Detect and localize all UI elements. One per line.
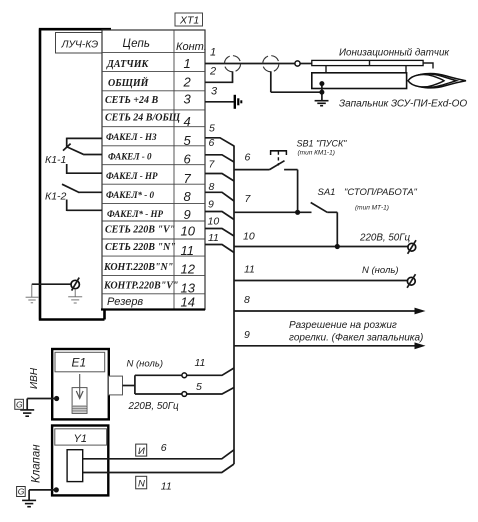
igniter ground connection (315, 81, 329, 106)
device ЛУЧ-КЭ outline (39, 29, 111, 319)
flame (408, 73, 466, 87)
svg-text:4: 4 (184, 114, 191, 129)
svg-text:6: 6 (209, 137, 215, 149)
svg-text:Ионизационный датчик: Ионизационный датчик (339, 47, 449, 58)
relay contact K1-1 (45, 138, 102, 174)
svg-text:горелки. (Факел запальника): горелки. (Факел запальника) (289, 333, 423, 344)
svg-text:SA1: SA1 (318, 187, 336, 198)
svg-text:СЕТЬ 220В "N": СЕТЬ 220В "N" (105, 242, 176, 253)
ionization sensor electrode (312, 60, 433, 72)
svg-text:К1-2: К1-2 (45, 191, 67, 203)
svg-text:Y1: Y1 (74, 433, 87, 445)
arrowhead wire 9 (415, 342, 426, 349)
chassis earth circle symbol (68, 278, 82, 303)
svg-text:6: 6 (184, 152, 192, 167)
igniter transformer E1 box (52, 349, 109, 419)
svg-text:СЕТЬ 220В "V": СЕТЬ 220В "V" (105, 224, 175, 235)
wire 8 exit (234, 310, 418, 312)
svg-text:1: 1 (184, 56, 191, 71)
G box E1 (15, 399, 24, 409)
svg-text:ХТ1: ХТ1 (179, 15, 199, 27)
svg-text:СЕТЬ +24 В: СЕТЬ +24 В (105, 95, 158, 106)
svg-text:2: 2 (183, 75, 192, 90)
relay contact K1-2 (45, 184, 102, 211)
valve coil (67, 450, 83, 482)
svg-text:К1-1: К1-1 (45, 154, 66, 166)
svg-text:13: 13 (181, 280, 196, 295)
svg-text:1: 1 (210, 47, 216, 59)
Y1 ground wire (22, 487, 59, 506)
svg-text:Резерв: Резерв (107, 296, 143, 308)
junction SB1-wire7 (295, 210, 300, 215)
wire 6 to trunk (205, 155, 234, 162)
line end circle wire 10 (408, 240, 416, 254)
svg-text:ФАКЕЛ - 0: ФАКЕЛ - 0 (108, 152, 152, 162)
svg-text:И: И (138, 446, 145, 457)
svg-text:6: 6 (161, 442, 167, 454)
E1 ground wire (20, 396, 59, 416)
svg-text:G: G (16, 400, 23, 410)
svg-text:ФАКЕЛ* - НР: ФАКЕЛ* - НР (107, 209, 163, 219)
connector label XT1 (175, 13, 203, 27)
svg-text:220В, 50Гц: 220В, 50Гц (128, 401, 180, 412)
svg-text:5: 5 (196, 381, 202, 393)
svg-text:N: N (138, 478, 145, 489)
svg-text:Клапан: Клапан (31, 444, 43, 483)
wire 7 exit to SA1 (234, 211, 312, 213)
svg-text:3: 3 (211, 86, 218, 98)
svg-text:ЛУЧ-КЭ: ЛУЧ-КЭ (61, 39, 99, 50)
svg-text:КОНТР.220В"V": КОНТР.220В"V" (103, 281, 178, 292)
svg-text:G: G (18, 487, 25, 497)
Y1 wire N to trunk (83, 464, 234, 473)
junction SA1-wire10 (335, 244, 340, 249)
wire 11 to trunk (205, 245, 234, 253)
wire 9 to trunk (205, 212, 234, 220)
wire 3 (СЕТЬ +24 В) (205, 101, 234, 103)
svg-text:9: 9 (244, 329, 250, 341)
svg-text:ОБЩИЙ: ОБЩИЙ (108, 77, 150, 89)
svg-text:Запальник ЗСУ-ПИ-Еxd-ОО: Запальник ЗСУ-ПИ-Еxd-ОО (339, 98, 467, 109)
wire 7 to trunk (205, 174, 234, 182)
svg-text:(тип МТ-1): (тип МТ-1) (355, 205, 389, 212)
svg-text:Е1: Е1 (72, 356, 87, 370)
cable screen symbol 1 (224, 56, 240, 83)
earth symbol left (26, 284, 39, 303)
svg-text:11: 11 (208, 232, 219, 244)
terminal table XT1 (101, 30, 207, 310)
svg-text:СЕТЬ 24 В/ОБЩ: СЕТЬ 24 В/ОБЩ (105, 113, 181, 124)
svg-text:3: 3 (184, 91, 192, 106)
wire 2 (ОБЩИЙ screen) (205, 81, 233, 83)
wire 1 (ДАТЧИК) (205, 63, 295, 65)
svg-text:9: 9 (184, 207, 191, 222)
internal earth wire (32, 283, 71, 285)
switch SA1 (311, 203, 338, 247)
svg-text:9: 9 (208, 199, 214, 211)
svg-text:ФАКЕЛ - НЗ: ФАКЕЛ - НЗ (106, 132, 157, 142)
Y1 wire И to trunk (83, 450, 234, 459)
svg-text:5: 5 (184, 133, 192, 148)
wire 9 exit (234, 345, 418, 347)
svg-text:10: 10 (243, 231, 255, 243)
igniter body (312, 73, 407, 89)
svg-text:(тип КМ1-1): (тип КМ1-1) (298, 150, 335, 157)
wire 5 to trunk (205, 138, 234, 146)
connector circle on wire 1 (295, 61, 300, 66)
svg-text:ФАКЕЛ - НР: ФАКЕЛ - НР (106, 171, 158, 181)
svg-text:11: 11 (244, 264, 255, 276)
svg-text:7: 7 (184, 171, 192, 186)
wire 6 exit to SB1 (234, 169, 270, 171)
svg-text:ФАКЕЛ* - 0: ФАКЕЛ* - 0 (106, 190, 154, 200)
svg-text:8: 8 (184, 189, 192, 204)
wire 8 to trunk (205, 192, 234, 201)
svg-text:11: 11 (181, 243, 195, 258)
svg-text:10: 10 (181, 224, 196, 239)
wire 10 to trunk (205, 229, 234, 237)
boxed label И (136, 444, 147, 457)
spark electrode symbol inside E1 (72, 374, 87, 413)
wire 10 exit 220V (234, 246, 408, 248)
svg-text:ДАТЧИК: ДАТЧИК (106, 59, 149, 70)
svg-text:220В, 50Гц: 220В, 50Гц (359, 232, 411, 243)
chassis symbol on wire 3 (235, 95, 242, 109)
svg-text:Разрешение на розжиг: Разрешение на розжиг (289, 320, 397, 331)
line end circle wire 11 (407, 274, 415, 288)
svg-text:Цепь: Цепь (123, 38, 150, 50)
push button SB1 (270, 150, 298, 212)
device label ЛУЧ-КЭ (56, 33, 103, 54)
svg-text:5: 5 (209, 123, 215, 135)
svg-text:11: 11 (161, 481, 172, 493)
svg-text:14: 14 (181, 294, 195, 309)
svg-text:8: 8 (209, 181, 215, 193)
svg-text:N (ноль): N (ноль) (362, 265, 398, 276)
svg-text:6: 6 (245, 152, 251, 164)
svg-text:КОНТ.220В"N": КОНТ.220В"N" (103, 262, 173, 273)
svg-text:10: 10 (208, 216, 220, 228)
svg-text:2: 2 (209, 66, 216, 78)
svg-text:11: 11 (195, 357, 206, 369)
G box Y1 (17, 487, 26, 497)
svg-text:Конт.: Конт. (176, 41, 207, 53)
svg-text:12: 12 (181, 262, 196, 277)
wire 11 exit N (234, 280, 408, 282)
valve Y1 box (52, 426, 108, 496)
cable screen symbol 2 (263, 56, 322, 93)
svg-text:"СТОП/РАБОТА": "СТОП/РАБОТА" (344, 187, 418, 198)
svg-text:N (ноль): N (ноль) (127, 359, 163, 370)
svg-text:8: 8 (244, 294, 250, 306)
svg-text:SB1 "ПУСК": SB1 "ПУСК" (297, 138, 348, 148)
arrowhead wire 8 (415, 308, 426, 315)
wire 1 to sensor (300, 63, 312, 65)
E1 connector tab (109, 376, 123, 395)
trunk group line (233, 146, 235, 465)
boxed label N (136, 476, 147, 489)
E1 wires to trunk (123, 368, 235, 396)
svg-text:ИВН: ИВН (29, 367, 40, 389)
